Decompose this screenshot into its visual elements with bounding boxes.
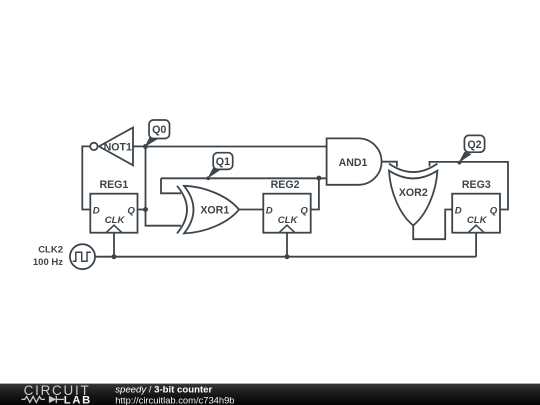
node flag Q0 [145,120,170,147]
svg-text:LAB: LAB [64,395,92,405]
wire AND1 output to XOR2 left input [382,162,397,167]
node flag Q2 [458,135,485,164]
svg-text:Q0: Q0 [152,124,166,136]
wire node Q0 down to XOR1 bottom input [146,146,182,225]
wire clock rail [95,256,476,258]
svg-text:NOT1: NOT1 [104,141,132,153]
svg-text:D: D [455,205,462,216]
flip-flop REG3 [452,194,500,233]
flip-flop REG1 [90,194,137,233]
wire Q1 horizontal to AND1 bottom input [161,177,327,179]
svg-text:AND1: AND1 [339,157,368,169]
CLK2 value label [33,245,63,269]
svg-text:D: D [93,205,100,216]
clock source CLK2 [70,244,95,269]
junction node Q0 [143,144,148,149]
svg-text:CLK2: CLK2 [38,245,63,256]
svg-text:100 Hz: 100 Hz [33,257,63,268]
wire REG2 Q up to Q1 line [311,178,319,209]
svg-text:REG2: REG2 [271,179,300,191]
svg-text:XOR2: XOR2 [399,187,428,199]
wire XOR1 output to REG2 D [239,209,263,211]
junction REG1 Q tap [143,207,148,212]
wire Q1 line to XOR1 top input [161,178,181,193]
wire XOR2 right input to REG3 Q loop [430,162,509,210]
wire REG2 CLK to rail [286,233,288,257]
svg-text:CLK: CLK [278,215,299,226]
svg-text:XOR1: XOR1 [200,205,229,217]
svg-text:Q: Q [490,205,498,216]
xor gate XOR1 [177,186,239,234]
svg-text:D: D [266,205,273,216]
svg-text:Q: Q [300,205,308,216]
wire node Q0 to AND1 top input [146,146,327,148]
svg-text:Q1: Q1 [216,156,230,168]
node flag Q1 [206,153,232,181]
svg-text:Q: Q [127,205,135,216]
wire NOT1 input from node Q0 [133,145,146,147]
junction clock rail REG2 [285,254,290,259]
xor gate XOR2 (rotated, output down) [389,164,437,226]
inverter NOT1 [90,128,133,166]
CircuitLab logo resistor and diode [22,396,65,403]
svg-text:http://circuitlab.com/c734h9b: http://circuitlab.com/c734h9b [115,394,234,405]
svg-text:CLK: CLK [105,215,126,226]
wire REG1 Q to node Q0 branch [138,209,146,211]
wire XOR2 output to REG3 D [413,210,452,240]
wire REG3 CLK to rail [475,233,477,257]
svg-text:REG1: REG1 [99,179,128,191]
and gate AND1 [327,138,382,184]
svg-text:Q2: Q2 [467,139,481,151]
svg-text:CLK: CLK [467,215,488,226]
footer bar [0,384,540,405]
junction REG2 Q / AND1 input [316,176,321,181]
wire REG1 CLK to rail [113,233,115,257]
flip-flop REG2 [263,194,310,233]
svg-text:REG3: REG3 [462,179,491,191]
junction clock rail REG1 [112,254,117,259]
wire NOT1 output to REG1 D [82,146,90,209]
